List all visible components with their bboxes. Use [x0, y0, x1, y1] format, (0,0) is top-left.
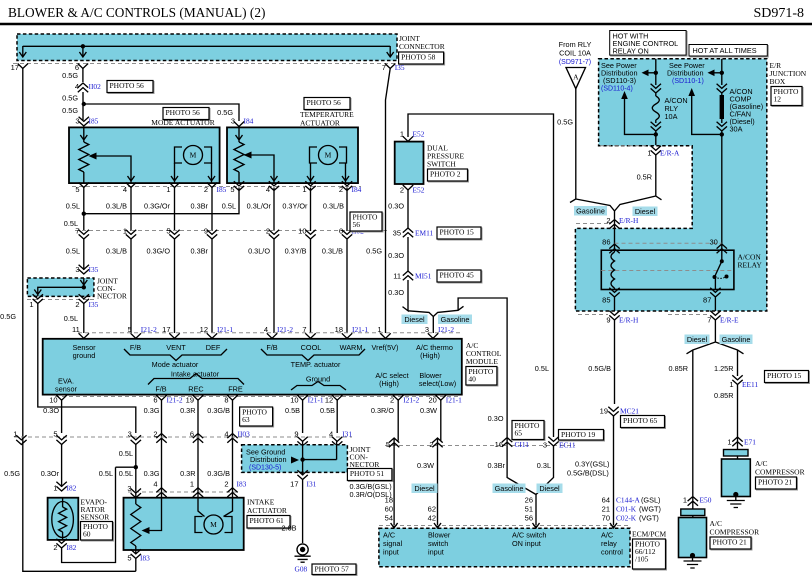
svg-text:7: 7: [75, 227, 79, 236]
svg-text:E/R-E: E/R-E: [720, 316, 739, 325]
resistor (intake actuator): [135, 498, 137, 504]
svg-text:0.3L/O: 0.3L/O: [248, 247, 270, 256]
svg-text:I21-2: I21-2: [438, 325, 454, 334]
wire labels below I85/I84: [66, 202, 344, 211]
svg-text:PHOTO 57: PHOTO 57: [315, 565, 349, 574]
svg-text:COIL 10A: COIL 10A: [559, 49, 591, 58]
brace mode actuator: [124, 349, 227, 361]
svg-text:(SD130-5): (SD130-5): [249, 465, 281, 472]
connector I85 row under mode actuator: [72, 183, 361, 195]
svg-text:1: 1: [377, 325, 381, 334]
svg-text:MI51: MI51: [415, 272, 432, 281]
svg-text:0.3Y(GSL): 0.3Y(GSL): [575, 460, 609, 469]
svg-text:0.3G: 0.3G: [144, 406, 160, 415]
svg-text:I21-1: I21-1: [217, 325, 233, 334]
connector row I35 below bar: [11, 63, 405, 72]
connector I82 pin 2 and wire to 0.5L: [53, 467, 115, 562]
svg-text:RELAY: RELAY: [738, 261, 763, 270]
svg-text:ON input: ON input: [512, 539, 541, 548]
svg-text:CI11: CI11: [515, 440, 530, 449]
svg-text:ACTUATOR: ACTUATOR: [300, 119, 340, 128]
svg-text:64: 64: [602, 496, 610, 505]
svg-text:0.5G: 0.5G: [62, 94, 78, 103]
svg-text:0.85R: 0.85R: [714, 391, 733, 400]
PHOTO 56 box next to II02: [108, 82, 154, 94]
svg-text:11: 11: [393, 272, 401, 281]
svg-text:3: 3: [128, 430, 132, 439]
svg-text:HOT AT ALL TIMES: HOT AT ALL TIMES: [693, 46, 757, 55]
module bottom connector row I21: [49, 395, 462, 404]
wire A/CON COMP feed: [708, 59, 725, 85]
svg-text:I85: I85: [217, 185, 227, 194]
svg-text:1: 1: [53, 484, 57, 493]
labels 0.3Y(GSL) 0.5G/B(DSL): [567, 460, 609, 478]
svg-text:5: 5: [230, 185, 234, 194]
wire E/R-E fork Diesel/Gasoline: [687, 320, 744, 354]
A/C control module box: [43, 339, 462, 395]
svg-text:I84: I84: [244, 117, 254, 126]
svg-text:18: 18: [335, 325, 343, 334]
svg-text:sensor: sensor: [55, 385, 77, 394]
svg-text:C02-K: C02-K: [616, 514, 637, 523]
svg-text:6: 6: [339, 227, 343, 236]
svg-text:3: 3: [425, 325, 429, 334]
connector E52 pin 1: [400, 130, 425, 142]
svg-text:0.85R: 0.85R: [669, 364, 688, 373]
svg-text:0.3L: 0.3L: [537, 461, 551, 470]
A/CON relay box: [601, 243, 734, 289]
connector I84 row under temperature actuator: [230, 181, 361, 194]
wire 0.5G from A to Gasoline fork: [557, 89, 614, 219]
svg-text:MODULE: MODULE: [466, 357, 498, 366]
svg-text:1: 1: [683, 496, 687, 505]
svg-text:2: 2: [339, 185, 343, 194]
svg-text:ACTUATOR: ACTUATOR: [247, 506, 287, 515]
svg-text:(VGT): (VGT): [639, 514, 659, 523]
svg-text:0.3G: 0.3G: [144, 469, 160, 478]
svg-text:0.3Or: 0.3Or: [41, 469, 60, 478]
svg-text:0.5R: 0.5R: [637, 173, 652, 182]
svg-text:0.5G: 0.5G: [4, 469, 20, 478]
temperature actuator box: [227, 127, 358, 183]
svg-text:Gasoline: Gasoline: [576, 206, 605, 215]
svg-text:63: 63: [242, 415, 250, 424]
svg-text:86: 86: [602, 238, 610, 247]
E/R junction box label PHOTO 12: [770, 61, 807, 107]
svg-text:0.3L/B: 0.3L/B: [323, 202, 344, 211]
svg-text:51: 51: [525, 505, 533, 514]
wires module to II03/I31 row: [62, 401, 441, 498]
connector row I35 pins 1,2: [27, 294, 99, 309]
relay switch: [713, 259, 729, 289]
svg-text:0.5L: 0.5L: [119, 469, 133, 478]
svg-text:I21-2: I21-2: [141, 325, 157, 334]
pin numbers 26 51 56: [525, 496, 533, 523]
wire 0.5R Diesel to fork: [615, 155, 662, 211]
svg-text:E/R-A: E/R-A: [660, 149, 680, 158]
connector EM11 PHOTO 15: [393, 227, 482, 240]
svg-text:4: 4: [266, 185, 270, 194]
svg-text:SENSOR: SENSOR: [81, 513, 110, 522]
svg-text:5: 5: [127, 554, 131, 563]
fuse A/CON RLY 10A: [651, 84, 688, 135]
svg-text:BLOWER & A/C CONTROLS (MANUAL): BLOWER & A/C CONTROLS (MANUAL) (2): [8, 5, 265, 20]
svg-text:I82: I82: [67, 543, 77, 552]
svg-text:0.5G: 0.5G: [557, 118, 573, 127]
relay coil: [611, 252, 615, 288]
svg-text:6: 6: [190, 430, 194, 439]
svg-text:Diesel: Diesel: [687, 335, 708, 344]
svg-text:12: 12: [200, 325, 208, 334]
svg-text:Mode actuator: Mode actuator: [152, 360, 199, 369]
svg-text:(GSL): (GSL): [641, 496, 660, 505]
from RLY COIL 10A source A: [559, 40, 592, 89]
svg-text:M: M: [190, 151, 197, 160]
tag Diesel (E/R-E): [685, 335, 710, 345]
svg-text:C01-K: C01-K: [616, 505, 637, 514]
svg-text:0.3W: 0.3W: [417, 461, 434, 470]
svg-text:8: 8: [224, 396, 228, 405]
svg-text:0.3O: 0.3O: [388, 288, 404, 297]
connector E/R-E pin 7: [668, 311, 739, 325]
svg-text:Distribution: Distribution: [667, 69, 704, 78]
svg-text:(WGT): (WGT): [639, 505, 661, 514]
svg-text:I83: I83: [237, 480, 247, 489]
svg-text:input: input: [428, 548, 444, 557]
svg-text:PHOTO 51: PHOTO 51: [350, 469, 384, 478]
svg-text:select(Low): select(Low): [419, 379, 456, 388]
connector MC21 PHOTO 65: [600, 407, 666, 429]
svg-text:60: 60: [385, 505, 393, 514]
svg-text:M: M: [210, 520, 217, 529]
svg-text:1: 1: [729, 380, 733, 389]
svg-text:5: 5: [128, 325, 132, 334]
svg-text:SD971-8: SD971-8: [753, 6, 804, 21]
svg-text:4: 4: [224, 430, 228, 439]
svg-text:3: 3: [75, 117, 79, 126]
svg-text:9: 9: [294, 430, 298, 439]
relay pin 86: [602, 238, 620, 254]
brace temp actuator: [261, 349, 365, 361]
svg-text:PHOTO 58: PHOTO 58: [401, 53, 435, 62]
wire 0.3R/O to ECM A/C signal input: [385, 446, 394, 529]
svg-text:TEMP. actuator: TEMP. actuator: [291, 360, 341, 369]
evaporator sensor label PHOTO 60: [81, 498, 114, 542]
module top connector row I21: [72, 325, 460, 338]
dual pressure switch box: [395, 142, 424, 184]
see power distribution SD110-1: [667, 61, 705, 85]
svg-text:Diesel: Diesel: [539, 484, 560, 493]
svg-text:2: 2: [429, 440, 433, 449]
svg-text:5: 5: [386, 440, 390, 449]
A/C CONTROL MODULE label PHOTO 40: [466, 341, 502, 386]
svg-text:COMPRESSOR: COMPRESSOR: [710, 528, 760, 537]
svg-text:1: 1: [400, 130, 404, 139]
svg-text:PHOTO 21: PHOTO 21: [713, 538, 747, 547]
svg-text:2.0B: 2.0B: [281, 524, 296, 533]
svg-text:E/R-H: E/R-H: [619, 216, 639, 225]
wire 0.5G branch to temperature actuator pin 3: [84, 104, 254, 127]
svg-text:SWITCH: SWITCH: [427, 160, 456, 169]
svg-text:0.5G/B(DSL): 0.5G/B(DSL): [567, 469, 609, 478]
joint connector I35 label: [97, 277, 127, 301]
svg-text:F/B: F/B: [130, 343, 141, 352]
svg-text:12: 12: [774, 95, 782, 104]
motor M (intake actuator): [204, 515, 223, 534]
svg-text:0.3Br: 0.3Br: [191, 202, 209, 211]
svg-text:I21-2: I21-2: [403, 396, 419, 405]
svg-text:I35: I35: [395, 63, 405, 72]
svg-text:Diesel: Diesel: [404, 315, 425, 324]
wire 0.5G Vref rail x=388: [386, 69, 391, 334]
svg-text:4: 4: [123, 185, 127, 194]
svg-text:(High): (High): [379, 379, 399, 388]
svg-text:PHOTO 56: PHOTO 56: [110, 81, 144, 90]
svg-text:2: 2: [400, 186, 404, 195]
wire Gasoline loop x458/x507: [433, 298, 507, 437]
svg-text:10A: 10A: [665, 112, 678, 121]
svg-text:5: 5: [75, 185, 79, 194]
wiper arrow (intake actuator): [149, 498, 162, 531]
svg-text:CONNECTOR: CONNECTOR: [399, 42, 445, 51]
svg-text:0.3G/B: 0.3G/B: [207, 406, 230, 415]
svg-text:0.3L/B: 0.3L/B: [322, 247, 343, 256]
svg-text:0.3Y/B: 0.3Y/B: [285, 247, 307, 256]
svg-text:7: 7: [302, 325, 306, 334]
wire labels above intake actuator: [144, 469, 230, 478]
dual pressure switch label PHOTO 2: [427, 144, 469, 183]
svg-text:ground: ground: [73, 351, 96, 360]
svg-text:3: 3: [231, 117, 235, 126]
svg-text:I21-1: I21-1: [308, 396, 324, 405]
svg-text:0.5G: 0.5G: [62, 106, 78, 115]
wire 0.5L into small joint connector: [75, 239, 98, 274]
svg-text:Gasoline: Gasoline: [722, 335, 751, 344]
branch arrow to SD110-4: [621, 91, 658, 137]
svg-text:30A: 30A: [730, 125, 743, 134]
connector row right: 5, 2, CI11, EC11: [385, 438, 575, 449]
svg-text:(SD110-4): (SD110-4): [601, 86, 633, 93]
svg-text:12: 12: [325, 396, 333, 405]
wiper arrow (temperature actuator): [251, 155, 274, 183]
svg-text:60: 60: [83, 530, 91, 539]
tag Diesel (E/R-H): [633, 207, 658, 217]
svg-text:F/B: F/B: [266, 343, 277, 352]
svg-text:PHOTO 2: PHOTO 2: [430, 170, 461, 179]
svg-text:Vref(5V): Vref(5V): [372, 343, 399, 352]
svg-text:I83: I83: [140, 554, 150, 563]
svg-text:I31: I31: [342, 430, 352, 439]
svg-text:0.3R/O: 0.3R/O: [371, 406, 394, 415]
svg-text:7: 7: [382, 63, 386, 72]
svg-text:0.5L: 0.5L: [66, 202, 80, 211]
svg-text:PHOTO 56: PHOTO 56: [166, 108, 200, 117]
resistor (mode actuator): [79, 142, 89, 172]
connector E71: [727, 437, 756, 450]
svg-text:0.3L/B: 0.3L/B: [106, 247, 127, 256]
svg-text:0.3R: 0.3R: [180, 406, 195, 415]
svg-text:E52: E52: [413, 130, 425, 139]
svg-text:PHOTO 15: PHOTO 15: [767, 371, 801, 380]
tag Gasoline (ECM): [493, 484, 526, 494]
wire 0.5G/B E/R-H to MC21: [588, 320, 614, 404]
svg-text:0.3L/B: 0.3L/B: [106, 202, 127, 211]
PHOTO 63 box: [241, 408, 274, 427]
A/CON RELAY label: [738, 253, 763, 270]
svg-text:42: 42: [428, 514, 436, 523]
svg-text:0.5G: 0.5G: [366, 247, 382, 256]
connector row II02: [75, 227, 390, 240]
svg-text:0.5L: 0.5L: [535, 364, 549, 373]
evaporator sensor (thermistor): [48, 498, 79, 540]
svg-text:0.5L: 0.5L: [99, 469, 113, 478]
svg-text:0.5L: 0.5L: [222, 202, 236, 211]
svg-text:PHOTO 19: PHOTO 19: [561, 430, 595, 439]
svg-text:5: 5: [166, 227, 170, 236]
svg-text:PHOTO 15: PHOTO 15: [440, 228, 474, 237]
svg-text:M: M: [325, 151, 332, 160]
svg-text:1: 1: [727, 438, 731, 447]
A/C compressor (gasoline): [722, 450, 751, 508]
svg-text:65: 65: [515, 429, 523, 438]
svg-text:C144-A: C144-A: [616, 496, 640, 505]
svg-text:56: 56: [525, 514, 533, 523]
svg-text:DEF: DEF: [206, 343, 221, 352]
wire to relay pin 30: [721, 134, 723, 244]
svg-text:PHOTO 61: PHOTO 61: [250, 516, 284, 525]
svg-text:2: 2: [390, 396, 394, 405]
connector row II03 and I31: [13, 430, 352, 447]
svg-text:10: 10: [49, 396, 57, 405]
svg-text:1: 1: [190, 480, 194, 489]
motor M (temperature actuator): [319, 146, 338, 165]
svg-text:19: 19: [186, 396, 194, 405]
connector MI51 PHOTO 45: [393, 270, 482, 283]
wire 0.5G left rail: [0, 68, 136, 572]
A/C compressor (diesel): [679, 509, 707, 568]
svg-text:E/R-H: E/R-H: [619, 316, 639, 325]
connector I83 pin 5 below intake: [127, 549, 150, 571]
svg-text:1: 1: [166, 185, 170, 194]
svg-text:4: 4: [75, 82, 79, 91]
svg-text:F/B: F/B: [155, 385, 166, 394]
svg-text:1: 1: [302, 185, 306, 194]
wire 0.3O EM11 to MI51: [388, 237, 408, 271]
svg-text:A: A: [573, 73, 579, 82]
svg-text:9: 9: [204, 227, 208, 236]
svg-text:PHOTO 21: PHOTO 21: [758, 478, 792, 487]
svg-text:0.3G/O: 0.3G/O: [146, 247, 170, 256]
svg-text:NECTOR: NECTOR: [350, 460, 380, 469]
svg-text:EE11: EE11: [742, 380, 758, 389]
svg-text:20: 20: [428, 396, 436, 405]
svg-text:1: 1: [123, 227, 127, 236]
svg-text:11: 11: [72, 325, 80, 334]
title: BLOWER & A/C CONTROLS (MANUAL) (2): [0, 5, 812, 24]
svg-text:0.3R: 0.3R: [180, 469, 195, 478]
wire 0.5L jog temp pin5 to main: [64, 188, 347, 232]
svg-text:EC11: EC11: [559, 441, 576, 450]
svg-text:I21-1: I21-1: [352, 325, 368, 334]
svg-text:35: 35: [393, 229, 401, 238]
svg-text:E71: E71: [744, 438, 756, 447]
tag Diesel (ECM): [537, 484, 563, 494]
joint connector bar (PHOTO 58): [17, 34, 397, 61]
svg-text:I31: I31: [307, 480, 317, 489]
svg-text:87: 87: [703, 296, 711, 305]
node pin3 fork merge: [0, 0, 1, 1]
svg-text:56: 56: [353, 220, 361, 229]
ground G08: [295, 544, 358, 576]
svg-text:I21-2: I21-2: [277, 325, 293, 334]
svg-text:1: 1: [647, 149, 651, 158]
wires to A/C control module top: [131, 239, 347, 333]
svg-text:1: 1: [29, 300, 33, 309]
svg-text:COMPRESSOR: COMPRESSOR: [755, 468, 805, 477]
intake actuator box: [124, 498, 244, 554]
svg-text:control: control: [601, 548, 623, 557]
tag Gasoline (A/C thermo): [438, 315, 472, 325]
svg-text:BOX: BOX: [770, 77, 786, 86]
svg-text:0.3O: 0.3O: [388, 202, 404, 211]
svg-text:16: 16: [495, 440, 503, 449]
svg-text:Gasoline: Gasoline: [495, 484, 524, 493]
connector EC11 PHOTO 19: [543, 430, 605, 450]
wire A/CON RLY feed: [642, 59, 659, 85]
See Ground Distribution box: [242, 442, 348, 476]
connector E/R-A pin 1: [600, 134, 680, 157]
svg-text:0.3O: 0.3O: [488, 414, 504, 423]
svg-text:17: 17: [11, 63, 19, 72]
wire labels below II02: [66, 247, 383, 256]
HOT AT ALL TIMES box: [689, 45, 768, 58]
wire 0.3O E52 to EM11: [388, 190, 408, 228]
temperature actuator label PHOTO 56: [300, 98, 354, 128]
svg-text:70: 70: [602, 514, 610, 523]
ECM/PCM label PHOTO 66/112/105: [632, 530, 667, 571]
wiper arrow (mode actuator): [96, 156, 131, 183]
wires 0.3Br/0.3L merge to ECM A/C switch ON: [488, 446, 554, 528]
svg-text:1: 1: [13, 430, 17, 439]
svg-text:7: 7: [707, 316, 711, 325]
E/R junction box block: [575, 59, 766, 311]
connector E52 pin 2: [400, 185, 425, 195]
svg-text:2: 2: [75, 300, 79, 309]
A/C compressor label PHOTO 21 (gasoline): [755, 459, 805, 490]
svg-text:I21-1: I21-1: [446, 396, 462, 405]
svg-text:0.5B: 0.5B: [285, 406, 300, 415]
svg-text:MC21: MC21: [620, 407, 639, 416]
wire 0.85R Diesel to E50: [669, 350, 693, 496]
svg-text:0.3O: 0.3O: [43, 406, 59, 415]
svg-text:I21-2: I21-2: [167, 396, 183, 405]
svg-text:4: 4: [264, 325, 268, 334]
wire 0.3O MI51 to Diesel fork: [388, 280, 433, 333]
brace intake actuator: [148, 374, 244, 385]
svg-text:(SD971-7): (SD971-7): [559, 59, 591, 66]
PHOTO 56 box at II02 right: [351, 213, 383, 232]
svg-text:10: 10: [298, 227, 306, 236]
svg-text:0.3G/B: 0.3G/B: [207, 469, 230, 478]
HOT WITH ENGINE CONTROL RELAY ON box: [610, 31, 687, 57]
svg-text:40: 40: [468, 375, 476, 384]
svg-text:3: 3: [543, 441, 547, 450]
svg-text:0.3O: 0.3O: [388, 251, 404, 260]
wire joint connector pin1 to intake circuit: [38, 304, 136, 459]
tag Gasoline (E/R-H): [574, 206, 607, 216]
branch arrow to SD110-1: [688, 88, 724, 137]
svg-text:18: 18: [385, 496, 393, 505]
